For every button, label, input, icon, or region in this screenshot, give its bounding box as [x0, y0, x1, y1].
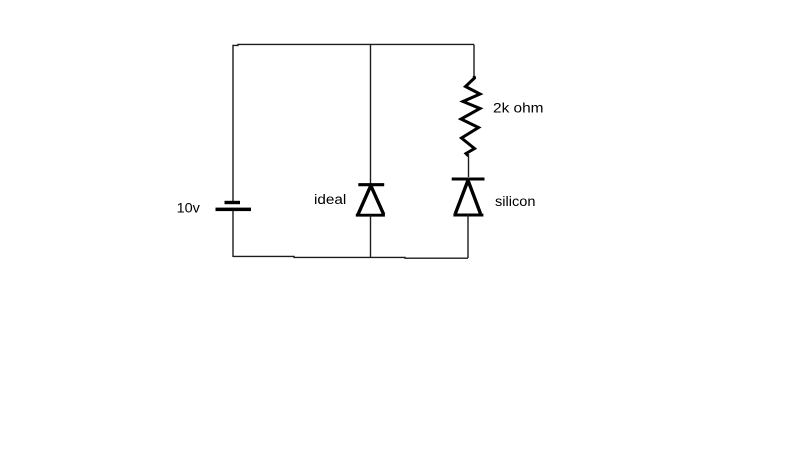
wire middle branch [370, 45, 372, 185]
wire bottom [233, 256, 468, 258]
resistor R1 [461, 76, 480, 156]
svg-text:10v: 10v [177, 201, 201, 217]
wire left upper [232, 45, 234, 201]
diode D2 silicon [452, 179, 485, 215]
wire right top [473, 45, 475, 78]
svg-text:2k ohm: 2k ohm [493, 100, 544, 116]
wire resistor to diode [468, 156, 470, 177]
label ideal [314, 192, 346, 208]
label 10v [177, 201, 201, 217]
wire left lower [232, 211, 234, 257]
label silicon [495, 194, 536, 210]
battery V1 [216, 201, 252, 211]
wire below silicon diode [467, 215, 469, 259]
wire below ideal diode [370, 215, 372, 258]
svg-text:ideal: ideal [314, 192, 346, 208]
diode D1 ideal [356, 185, 385, 216]
label 2k ohm [493, 100, 544, 116]
svg-text:silicon: silicon [495, 194, 536, 210]
wire top [233, 44, 474, 45]
